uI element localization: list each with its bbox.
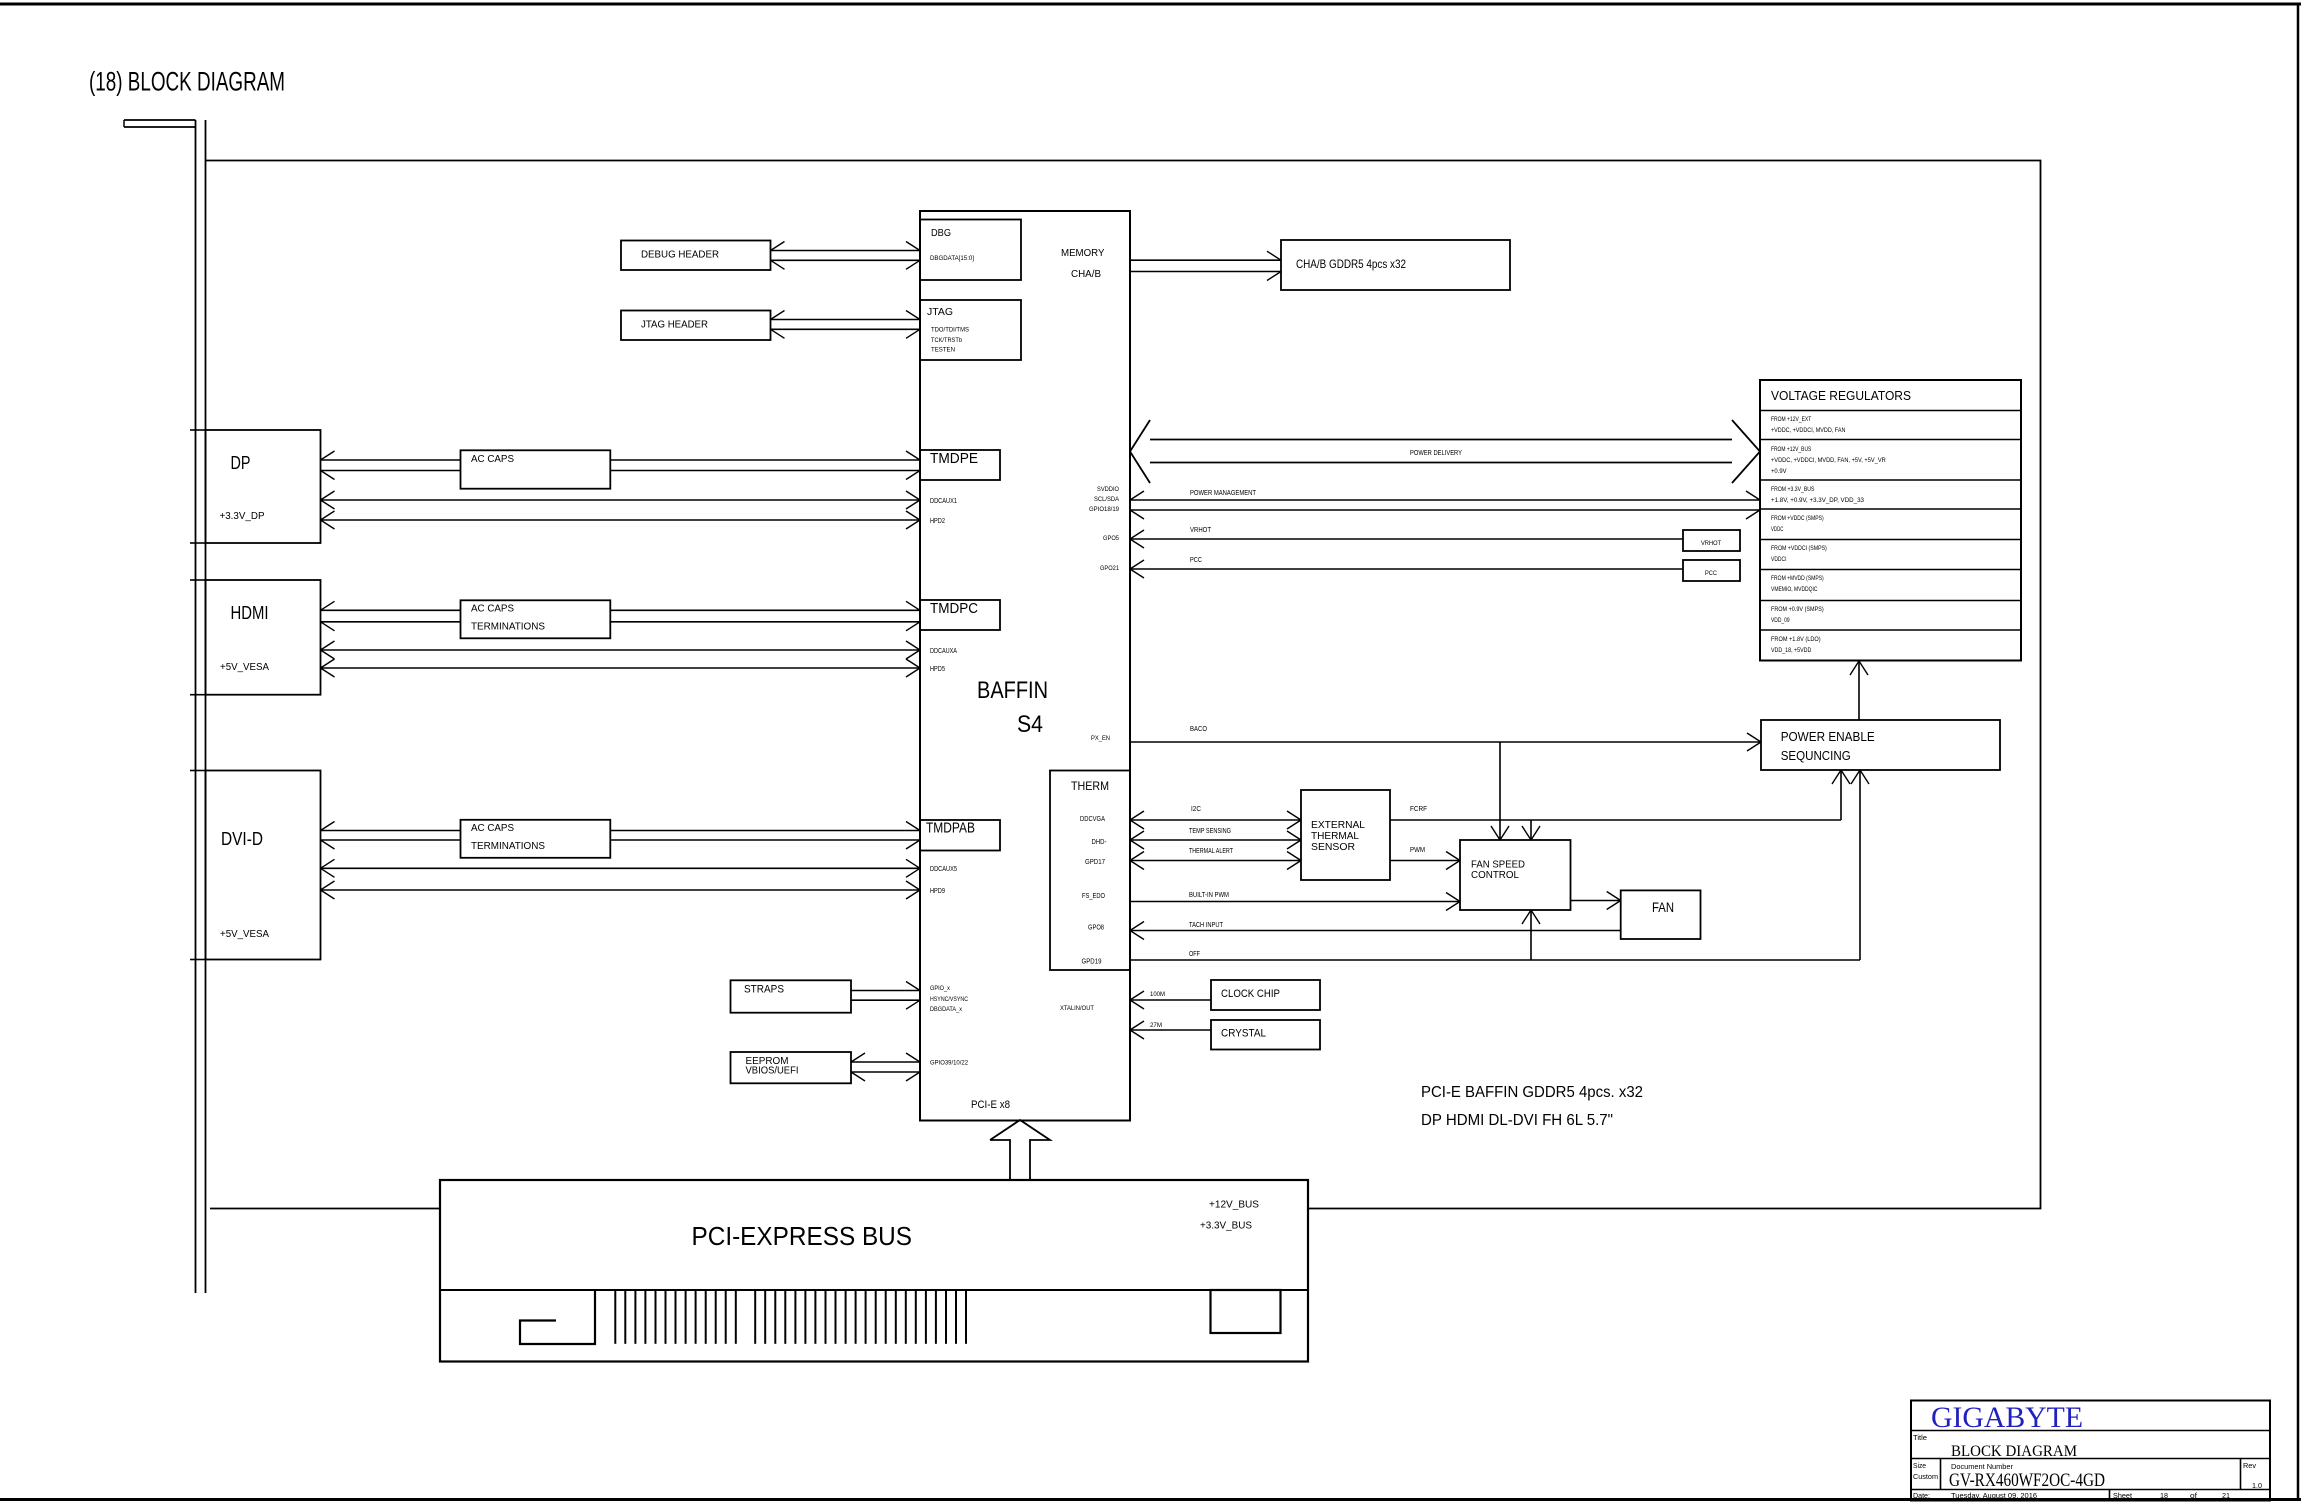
voltage regulator divider 5	[1760, 539, 2021, 541]
svg-text:BLOCK DIAGRAM: BLOCK DIAGRAM	[1951, 1443, 2077, 1460]
title block divider above date row	[1911, 1489, 2270, 1491]
wire PES to VR vertical	[1858, 661, 1860, 721]
bus POWER MANAGEMENT pair	[1130, 499, 1760, 501]
svg-text:DDCAUXA: DDCAUXA	[930, 648, 957, 655]
voltage regulator row 3 text	[1771, 486, 1864, 504]
svg-text:DDCVGA: DDCVGA	[1080, 816, 1105, 823]
svg-text:100M: 100M	[1150, 991, 1165, 998]
voltage regulator divider 8	[1760, 629, 2021, 631]
title block divider under title	[1911, 1458, 2270, 1460]
svg-text:VBIOS/UEFI: VBIOS/UEFI	[746, 1066, 799, 1077]
sub-block TMDPC port	[920, 600, 1000, 630]
svg-text:TCK/TRSTb: TCK/TRSTb	[931, 338, 963, 344]
svg-text:TERMINATIONS: TERMINATIONS	[471, 622, 545, 633]
svg-text:HPD9: HPD9	[930, 888, 945, 895]
block VRHOT	[1683, 530, 1740, 551]
svg-text:FROM +3.3V_BUS: FROM +3.3V_BUS	[1771, 486, 1815, 493]
svg-text:CHA/B: CHA/B	[1071, 268, 1101, 280]
svg-text:HSYNC/VSYNC: HSYNC/VSYNC	[930, 996, 968, 1003]
svg-text:HDMI: HDMI	[231, 603, 269, 623]
svg-text:FROM +12V_BUS: FROM +12V_BUS	[1771, 446, 1812, 453]
block PCC	[1683, 560, 1740, 581]
voltage regulator row 6 text	[1771, 575, 1824, 593]
wire memory bus pair to GDDR5	[1130, 259, 1281, 261]
block POWER ENABLE SEQUNCING	[1761, 720, 2000, 770]
svg-text:GV-RX460WF2OC-4GD: GV-RX460WF2OC-4GD	[1949, 1470, 2105, 1491]
svg-text:CONTROL: CONTROL	[1471, 869, 1519, 881]
svg-text:VDD_09: VDD_09	[1771, 617, 1790, 624]
svg-text:+5V_VESA: +5V_VESA	[220, 662, 269, 673]
block CRYSTAL	[1211, 1020, 1320, 1050]
svg-text:+3.3V_BUS: +3.3V_BUS	[1200, 1221, 1252, 1232]
svg-text:TESTEN: TESTEN	[931, 348, 955, 354]
wire TEMP SENSING	[1130, 839, 1301, 841]
wire VRHOT	[1130, 538, 1683, 540]
block HDMI connector	[206, 580, 321, 695]
svg-text:VDDC: VDDC	[1771, 526, 1784, 533]
voltage regulator divider 2	[1760, 439, 2021, 441]
svg-text:+5V_VESA: +5V_VESA	[220, 929, 269, 940]
block JTAG HEADER	[621, 311, 771, 341]
svg-text:Size: Size	[1913, 1461, 1926, 1470]
rail tick HDMI top	[190, 579, 206, 581]
svg-text:Sheet: Sheet	[2113, 1491, 2133, 1500]
wire BACO branch to fan speed control	[1499, 742, 1501, 840]
svg-text:CRYSTAL: CRYSTAL	[1221, 1028, 1266, 1040]
wire OFF net	[1130, 959, 1860, 961]
svg-text:FROM +1.8V (LDO): FROM +1.8V (LDO)	[1771, 636, 1821, 643]
block AC CAPS TERMINATIONS 2	[461, 600, 611, 638]
svg-text:AC CAPS: AC CAPS	[471, 823, 514, 834]
svg-text:MEMORY: MEMORY	[1061, 248, 1105, 259]
svg-text:GPIO18/19: GPIO18/19	[1089, 506, 1119, 513]
svg-text:PCC: PCC	[1190, 557, 1202, 564]
wire BACO to PES	[1130, 741, 1761, 743]
svg-text:27M: 27M	[1150, 1022, 1162, 1029]
title block frame	[1911, 1401, 2270, 1501]
wire TMDPAB pair DVI to BAFFIN	[321, 830, 921, 832]
voltage regulator row 2 text	[1771, 446, 1886, 475]
svg-text:GPO8: GPO8	[1088, 925, 1104, 932]
svg-text:AC CAPS: AC CAPS	[471, 604, 514, 615]
svg-text:TEMP SENSING: TEMP SENSING	[1189, 828, 1231, 835]
svg-text:CHA/B GDDR5 4pcs x32: CHA/B GDDR5 4pcs x32	[1296, 257, 1406, 271]
svg-text:THERM: THERM	[1071, 779, 1109, 793]
svg-text:Date:: Date:	[1913, 1491, 1930, 1500]
svg-text:1.0: 1.0	[2252, 1481, 2262, 1490]
svg-text:S4: S4	[1017, 711, 1043, 738]
wire PWM	[1390, 860, 1460, 862]
svg-text:PX_EN: PX_EN	[1091, 735, 1110, 742]
svg-text:DP HDMI DL-DVI FH 6L 5.7": DP HDMI DL-DVI FH 6L 5.7"	[1421, 1112, 1613, 1129]
svg-text:BUILT-IN PWM: BUILT-IN PWM	[1189, 892, 1229, 899]
wire HPD2	[321, 519, 921, 521]
rail tick DP top	[190, 429, 206, 431]
rail top stub double line	[124, 119, 196, 121]
voltage regulator row 7 text	[1771, 606, 1824, 624]
block DEBUG HEADER	[621, 241, 771, 271]
pci-e connector pin comb 1	[615, 1290, 736, 1344]
svg-text:Custom: Custom	[1913, 1472, 1938, 1481]
svg-text:PCI-E BAFFIN GDDR5 4pcs. x32: PCI-E BAFFIN GDDR5 4pcs. x32	[1421, 1084, 1643, 1101]
pci-e connector key notch	[520, 1290, 595, 1344]
wire FCRF net	[1390, 819, 1841, 821]
svg-text:GPD17: GPD17	[1085, 859, 1105, 866]
sub-block JTAG port	[920, 300, 1021, 360]
svg-text:HPD2: HPD2	[930, 518, 945, 525]
wire PCC	[1130, 568, 1683, 570]
svg-text:FROM +MVDD (SMPS): FROM +MVDD (SMPS)	[1771, 575, 1824, 582]
svg-text:VDD_18, +5VDD: VDD_18, +5VDD	[1771, 647, 1812, 654]
svg-text:THERMAL ALERT: THERMAL ALERT	[1189, 848, 1234, 855]
rail tick HDMI bottom	[190, 694, 206, 696]
block STRAPS	[731, 980, 852, 1012]
voltage regulator divider 6	[1760, 569, 2021, 571]
sub-block THERM	[1050, 771, 1130, 971]
svg-text:DBGDATA[15:0]: DBGDATA[15:0]	[930, 256, 974, 262]
svg-text:DVI-D: DVI-D	[221, 829, 263, 849]
pci-e connector pin comb 2	[755, 1290, 966, 1344]
svg-text:GPD19: GPD19	[1082, 959, 1102, 966]
svg-text:DBGDATA_x: DBGDATA_x	[930, 1006, 963, 1013]
wire HPD9	[321, 889, 921, 891]
rail tick DP bottom	[190, 542, 206, 544]
voltage regulator row 4 text	[1771, 515, 1824, 533]
title block divider under logo	[1911, 1430, 2270, 1432]
wire DBG bus pair	[771, 250, 921, 252]
page border top	[0, 3, 2301, 6]
sub-block DBG port	[920, 220, 1021, 281]
rail tick DVI bottom	[190, 959, 206, 961]
svg-text:GPO21: GPO21	[1100, 565, 1119, 572]
svg-text:FCRF: FCRF	[1410, 806, 1427, 813]
svg-text:DEBUG HEADER: DEBUG HEADER	[641, 249, 719, 261]
wire BUILT-IN PWM	[1130, 901, 1460, 903]
svg-text:AC CAPS: AC CAPS	[471, 454, 514, 465]
wire STRAPS pair	[851, 990, 920, 992]
wire TACH INPUT	[1130, 930, 1621, 932]
svg-text:XTALIN/OUT: XTALIN/OUT	[1060, 1005, 1094, 1012]
block BAFFIN S4 GPU	[920, 211, 1130, 1121]
wire clock 100M	[1130, 999, 1211, 1001]
wire FSC to FAN	[1571, 900, 1621, 902]
sub-block TMDPE port	[920, 450, 1000, 480]
block AC CAPS TERMINATIONS 3	[461, 820, 611, 858]
svg-text:BAFFIN: BAFFIN	[977, 677, 1048, 704]
svg-text:Title: Title	[1913, 1433, 1927, 1442]
svg-text:DDCAUX5: DDCAUX5	[930, 866, 957, 873]
svg-text:TDO/TDI/TMS: TDO/TDI/TMS	[931, 328, 969, 334]
page border right	[2297, 3, 2300, 1501]
svg-text:VOLTAGE REGULATORS: VOLTAGE REGULATORS	[1771, 388, 1911, 403]
svg-text:GPO5: GPO5	[1103, 535, 1119, 542]
svg-text:POWER ENABLE: POWER ENABLE	[1781, 729, 1875, 744]
voltage regulator divider 7	[1760, 600, 2021, 602]
svg-text:GIGABYTE: GIGABYTE	[1931, 1401, 2083, 1434]
svg-text:21: 21	[2222, 1491, 2230, 1500]
bus arrow PCI-E to BAFFIN hollow	[990, 1120, 1050, 1181]
sub-block TMDPAB port	[920, 820, 1000, 851]
svg-text:DBG: DBG	[931, 228, 951, 239]
pci-e connector top line	[440, 1289, 1308, 1291]
svg-text:+VDDC, +VDDCI, MVDD, FAN: +VDDC, +VDDCI, MVDD, FAN	[1771, 427, 1846, 434]
bus POWER DELIVERY double arrow	[1130, 420, 1150, 483]
block VOLTAGE REGULATORS	[1760, 380, 2021, 661]
svg-text:SEQUNCING: SEQUNCING	[1781, 748, 1851, 763]
svg-text:+12V_BUS: +12V_BUS	[1209, 1200, 1259, 1211]
block EXTERNAL THERMAL SENSOR	[1301, 790, 1390, 880]
svg-text:JTAG HEADER: JTAG HEADER	[641, 319, 708, 331]
svg-text:DHD-: DHD-	[1092, 839, 1108, 846]
svg-text:TERMINATIONS: TERMINATIONS	[471, 841, 545, 852]
svg-text:TMDPC: TMDPC	[930, 600, 978, 617]
title block divider sheet column	[2109, 1490, 2111, 1501]
svg-text:GPIO39/10/22: GPIO39/10/22	[930, 1060, 968, 1067]
pci-e connector right tab	[1211, 1290, 1281, 1333]
wire EEPROM pair	[851, 1061, 920, 1063]
svg-text:BACO: BACO	[1190, 726, 1207, 733]
svg-text:VMEMIO, MVDDQIC: VMEMIO, MVDDQIC	[1771, 586, 1818, 593]
svg-text:FROM +0.9V (SMPS): FROM +0.9V (SMPS)	[1771, 606, 1824, 613]
block DP connector	[206, 430, 321, 543]
wire DDCAUX1	[321, 499, 921, 501]
wire TMDPC pair HDMI to BAFFIN	[321, 609, 921, 611]
svg-text:of: of	[2190, 1491, 2198, 1500]
svg-text:Rev: Rev	[2243, 1461, 2256, 1470]
block CHA/B GDDR5 memory	[1281, 240, 1510, 290]
svg-text:CLOCK CHIP: CLOCK CHIP	[1221, 988, 1280, 1000]
wire FCRF branch to fan speed control	[1530, 820, 1532, 840]
voltage regulator divider 3	[1760, 479, 2021, 481]
wire I2C	[1130, 819, 1301, 821]
page border bottom	[0, 1498, 2301, 1501]
block EEPROM VBIOS/UEFI	[731, 1052, 852, 1083]
svg-text:STRAPS: STRAPS	[744, 984, 784, 996]
svg-text:FAN: FAN	[1652, 899, 1674, 915]
svg-text:VRHOT: VRHOT	[1190, 527, 1212, 534]
left bus rail double line	[195, 120, 197, 1293]
svg-text:TMDPE: TMDPE	[930, 450, 978, 467]
block FAN	[1621, 890, 1701, 939]
svg-text:(18) BLOCK DIAGRAM: (18) BLOCK DIAGRAM	[89, 67, 285, 97]
svg-text:PWM: PWM	[1410, 847, 1425, 854]
svg-text:+VDDC, +VDDCI, MVDD, FAN, +5V,: +VDDC, +VDDCI, MVDD, FAN, +5V, +5V_VR	[1771, 457, 1886, 464]
svg-text:FROM +VDDC (SMPS): FROM +VDDC (SMPS)	[1771, 515, 1824, 522]
svg-text:VDDCI: VDDCI	[1771, 556, 1787, 563]
svg-text:TMDPAB: TMDPAB	[926, 820, 975, 837]
wire crystal 27M	[1130, 1029, 1211, 1031]
wire DDCAUXA	[321, 649, 921, 651]
svg-text:OFF: OFF	[1189, 951, 1200, 958]
wire JTAG bus pair	[771, 319, 921, 321]
wire THERMAL ALERT	[1130, 860, 1301, 862]
svg-text:PCC: PCC	[1705, 570, 1717, 577]
svg-text:SCL/SDA: SCL/SDA	[1094, 496, 1120, 503]
svg-text:I2C: I2C	[1191, 806, 1201, 813]
block DVI-D connector	[206, 771, 321, 960]
svg-text:PCI-EXPRESS BUS: PCI-EXPRESS BUS	[692, 1221, 913, 1251]
wire HPD5	[321, 667, 921, 669]
outer frame rectangle	[206, 161, 2041, 1209]
svg-text:FROM +12V_EXT: FROM +12V_EXT	[1771, 416, 1811, 423]
wire DDCAUX5	[321, 867, 921, 869]
wire OFF branch to fan speed control bottom	[1530, 910, 1532, 960]
rail tick DVI top	[190, 770, 206, 772]
block AC CAPS 1	[461, 450, 611, 488]
block PCI-EXPRESS BUS	[440, 1180, 1308, 1362]
svg-text:DP: DP	[231, 453, 251, 473]
svg-text:FROM +VDDCI (SMPS): FROM +VDDCI (SMPS)	[1771, 545, 1827, 552]
voltage regulator divider 4	[1760, 508, 2021, 510]
voltage regulator divider 1	[1760, 410, 2021, 412]
title block divider rev column	[2240, 1459, 2242, 1490]
svg-text:POWER DELIVERY: POWER DELIVERY	[1410, 450, 1462, 457]
voltage regulator row 1 text	[1771, 416, 1846, 434]
svg-text:SENSOR: SENSOR	[1311, 841, 1355, 853]
svg-text:VRHOT: VRHOT	[1701, 540, 1721, 547]
svg-text:+3.3V_DP: +3.3V_DP	[220, 511, 265, 522]
svg-text:TACH INPUT: TACH INPUT	[1189, 922, 1224, 929]
wire TMDPE pair DP to BAFFIN	[321, 459, 921, 461]
title block divider size column	[1940, 1459, 1942, 1490]
block FAN SPEED CONTROL	[1460, 840, 1571, 910]
voltage regulator row 8 text	[1771, 636, 1821, 654]
svg-text:GPIO_x: GPIO_x	[930, 985, 951, 992]
svg-text:JTAG: JTAG	[927, 306, 953, 318]
svg-text:Tuesday, August 09, 2016: Tuesday, August 09, 2016	[1951, 1491, 2037, 1500]
svg-text:FS_EDO: FS_EDO	[1082, 893, 1105, 900]
svg-text:DDCAUX1: DDCAUX1	[930, 498, 957, 505]
svg-text:SVDDIO: SVDDIO	[1097, 486, 1119, 493]
svg-text:+0.9V: +0.9V	[1771, 468, 1787, 475]
voltage regulator row 5 text	[1771, 545, 1827, 563]
svg-text:POWER MANAGEMENT: POWER MANAGEMENT	[1190, 490, 1257, 497]
svg-text:18: 18	[2160, 1491, 2168, 1500]
svg-text:PCI-E x8: PCI-E x8	[971, 1099, 1010, 1111]
svg-text:+1.8V, +0.9V, +3.3V_DP, VDD_33: +1.8V, +0.9V, +3.3V_DP, VDD_33	[1771, 497, 1864, 504]
block CLOCK CHIP	[1211, 980, 1320, 1010]
svg-text:HPD5: HPD5	[930, 666, 945, 673]
